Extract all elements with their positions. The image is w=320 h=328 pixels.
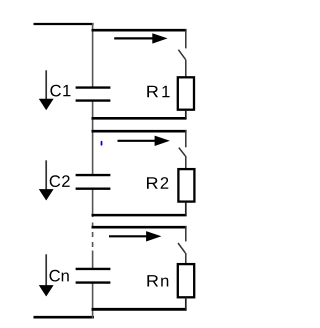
main bus vertical segment: input to C1 top plate [92,23,94,88]
switch S2: lower lead [185,156,187,169]
resistor R1 box [178,77,194,109]
main bus vertical segment: C1 bottom plate to C2 top plate [92,101,94,176]
label C1 [50,85,70,97]
main bus vertical segment: Cn bottom plate to output [92,283,94,319]
current arrow C1 (down) [39,70,54,110]
switch S3: upper lead [185,226,187,241]
capacitor Cn top plate [76,268,111,270]
wire section2 top [92,130,187,133]
switch S1: blade [178,50,185,60]
main bus vertical segment: C2 bottom plate to section2 bottom [92,189,94,217]
switch S1: upper lead [185,29,187,48]
resistor R2 box [178,169,194,202]
switch S3: lower lead [185,253,187,264]
capacitor Cn bottom plate [76,281,111,283]
capacitor C1 bottom plate [76,99,111,101]
label R2 [147,177,168,189]
label Rn [147,275,168,286]
wire section3 bottom [92,308,187,311]
resistor Rn box [178,264,194,297]
wire section1 bottom [92,117,187,120]
capacitor C1 top plate [76,86,111,88]
stray blue tick mark [101,141,103,146]
switch S2: blade [179,148,186,156]
resistor R1 bottom lead [185,111,187,119]
wire section3 top [92,226,187,229]
label R1 [147,86,169,97]
current arrow section2 (right) [118,136,170,146]
current arrow section1 (right) [114,33,167,43]
current arrow C2 (down) [39,160,54,200]
resistor Rn bottom lead [185,297,187,309]
resistor R2 bottom lead [185,203,187,216]
current arrow Cn (down) [39,254,54,296]
capacitor C2 bottom plate [76,187,111,189]
capacitor C2 top plate [76,174,111,176]
switch S3: blade [178,243,185,253]
switch S2: upper lead [185,130,187,147]
main bus dashed continuation segment [92,223,94,248]
switch S1: lower lead [185,60,187,77]
wire section1 top [92,29,187,32]
current arrow section3 (right) [109,231,161,241]
label Cn [50,270,69,282]
wire section2 bottom [92,214,187,217]
wire input (top left horizontal) [34,23,94,25]
main bus vertical segment: dashes end to Cn top plate [92,251,94,269]
label C2 [50,175,70,187]
wire output (bottom left horizontal) [34,316,95,319]
